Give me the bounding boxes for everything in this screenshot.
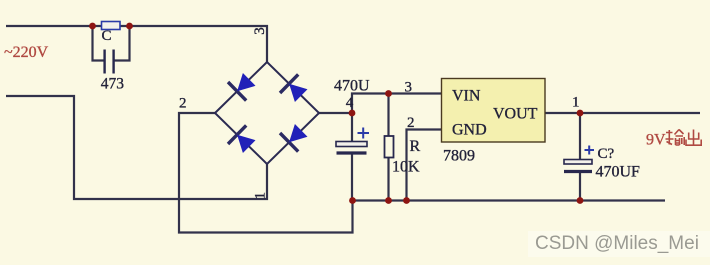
capacitor plates of snubber C 473 [105, 50, 114, 74]
svg-text:C?: C? [598, 146, 615, 162]
resistor C network box (snubber series element) [102, 22, 121, 30]
junction dot rail output cap [577, 197, 584, 204]
diode D2 top-right (points to top vertex) [280, 74, 308, 102]
diode D3 bottom-left (points to left vertex) [228, 125, 256, 153]
svg-text:4: 4 [346, 95, 354, 111]
watermark CSDN @Miles_Mei [528, 231, 710, 257]
diode D1 top-left (points to left vertex) [228, 73, 256, 101]
plus sign of filter cap [358, 128, 370, 139]
wire: snubber cap leads [93, 26, 130, 61]
svg-text:470U: 470U [334, 78, 370, 95]
bridge rectifier diamond [215, 62, 319, 164]
wire: GND pin [407, 130, 442, 201]
wire: resistor leads [387, 94, 389, 201]
regulator U 7809 [442, 79, 546, 143]
wire: filter cap leads [351, 113, 353, 201]
junction dot pin4 [349, 110, 356, 117]
svg-text:470UF: 470UF [596, 164, 641, 181]
wire: ground rail [353, 199, 666, 201]
svg-text:R: R [410, 138, 421, 155]
svg-text:3: 3 [252, 27, 268, 35]
diode D4 bottom-right (points to bottom vertex) [280, 124, 308, 152]
wire: bridge pin4 to VIN [319, 94, 442, 114]
wire: bridge pin2 to ground net [179, 113, 353, 233]
svg-text:7809: 7809 [443, 148, 475, 165]
svg-text:CSDN @Miles_Mei: CSDN @Miles_Mei [535, 233, 699, 254]
junction dot rail left [349, 197, 356, 204]
svg-text:VOUT: VOUT [493, 106, 538, 123]
svg-text:2: 2 [407, 115, 415, 131]
svg-text:2: 2 [179, 96, 187, 112]
hanzi shu (output) drawn [666, 130, 685, 146]
svg-text:~220V: ~220V [4, 44, 49, 61]
wire: top AC line [6, 26, 267, 62]
svg-text:10K: 10K [392, 159, 420, 176]
junction dot snubber left [89, 23, 96, 30]
svg-text:C: C [102, 28, 112, 44]
wire: VOUT line [545, 112, 700, 114]
svg-text:1: 1 [572, 95, 580, 111]
svg-text:473: 473 [101, 75, 125, 92]
junction dot rail R [385, 197, 392, 204]
output capacitor C? 470UF [564, 160, 592, 172]
junction dot snubber right [126, 23, 133, 30]
junction dot VOUT [577, 110, 584, 117]
svg-text:9V: 9V [646, 132, 666, 149]
wire: bottom AC line [6, 96, 267, 199]
resistor R 10K [385, 136, 394, 158]
svg-text:VIN: VIN [452, 88, 481, 105]
label 9V output (red) [646, 130, 701, 149]
hanzi chu (output) drawn [686, 130, 701, 146]
filter capacitor 470U [336, 142, 367, 154]
svg-text:3: 3 [405, 80, 413, 96]
junction dot rail GND [403, 197, 410, 204]
plus sign of output cap [585, 146, 595, 155]
junction dot VIN branch [385, 90, 392, 97]
wire: output cap leads [579, 113, 581, 201]
svg-text:GND: GND [452, 122, 487, 139]
svg-text:1: 1 [253, 192, 269, 200]
